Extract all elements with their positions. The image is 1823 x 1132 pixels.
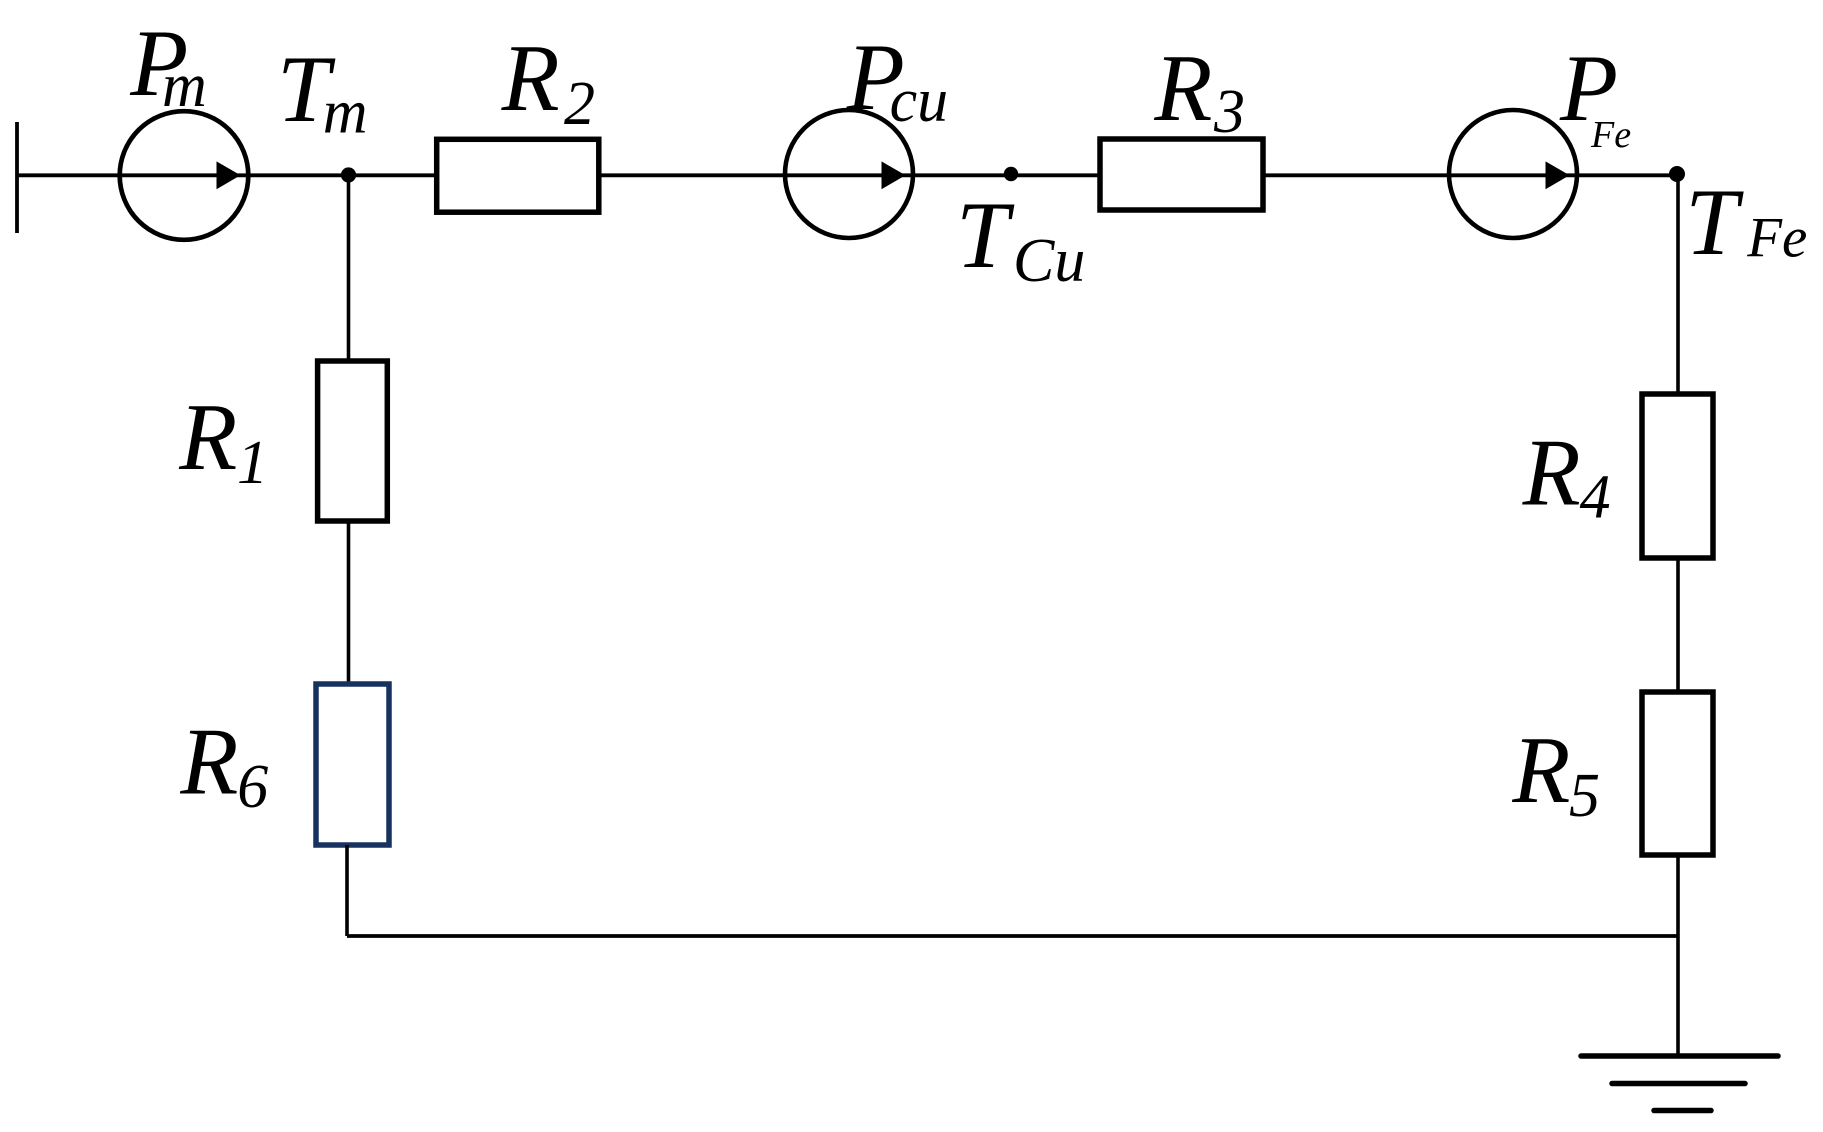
label T_Fe xyxy=(1685,169,1807,275)
svg-text:3: 3 xyxy=(1213,78,1245,146)
terminal bar left xyxy=(15,122,19,233)
svg-text:4: 4 xyxy=(1580,464,1611,532)
label R2 xyxy=(501,25,595,138)
wire R4 to R5 xyxy=(1676,558,1680,692)
resistor R6 xyxy=(316,684,389,845)
node T_m xyxy=(341,167,356,182)
svg-text:cu: cu xyxy=(890,67,949,135)
node T_Cu xyxy=(1004,167,1018,181)
label P_cu xyxy=(846,24,948,135)
svg-text:Cu: Cu xyxy=(1013,227,1085,295)
label P_m xyxy=(129,10,207,120)
svg-text:Fe: Fe xyxy=(1590,114,1631,156)
ground xyxy=(1581,1056,1778,1111)
wire T_Fe to R4 xyxy=(1676,175,1680,394)
svg-text:1: 1 xyxy=(237,429,268,497)
svg-text:6: 6 xyxy=(237,753,268,821)
svg-text:R: R xyxy=(1522,420,1581,526)
resistor R2 xyxy=(437,139,599,212)
power source P_cu xyxy=(785,110,913,238)
resistor R5 xyxy=(1642,692,1713,855)
wire T_m to R1 xyxy=(347,175,351,361)
wire R1 to R6 xyxy=(347,521,351,684)
label R3 xyxy=(1153,35,1245,146)
label R6 xyxy=(179,708,268,821)
wire R5 to bottom rail xyxy=(1676,855,1680,936)
resistor R1 xyxy=(318,361,388,521)
svg-text:R: R xyxy=(178,384,237,490)
wire bottom rail to ground xyxy=(1676,936,1680,1056)
svg-text:T: T xyxy=(1685,169,1744,275)
wire R6 to bottom rail xyxy=(345,845,349,936)
resistor R4 xyxy=(1642,394,1713,558)
svg-text:5: 5 xyxy=(1569,762,1600,830)
power source P_Fe xyxy=(1449,110,1577,238)
svg-text:Fe: Fe xyxy=(1746,207,1807,270)
wire main horizontal xyxy=(17,173,1678,177)
label R5 xyxy=(1511,717,1600,830)
svg-text:R: R xyxy=(1153,35,1212,141)
wire bottom rail xyxy=(347,934,1678,938)
node T_Fe xyxy=(1669,166,1685,182)
svg-text:T: T xyxy=(956,182,1015,288)
svg-text:R: R xyxy=(501,25,560,131)
power source P_m xyxy=(120,111,249,240)
svg-text:m: m xyxy=(323,79,368,147)
label R1 xyxy=(178,384,268,497)
svg-text:m: m xyxy=(162,52,207,120)
svg-text:R: R xyxy=(1511,717,1570,823)
label T_m xyxy=(277,36,367,147)
svg-text:2: 2 xyxy=(564,70,595,138)
label P_Fe xyxy=(1559,35,1631,156)
resistor R3 xyxy=(1100,139,1263,210)
label T_Cu xyxy=(956,182,1085,295)
label R4 xyxy=(1522,420,1611,532)
svg-text:R: R xyxy=(179,708,238,814)
